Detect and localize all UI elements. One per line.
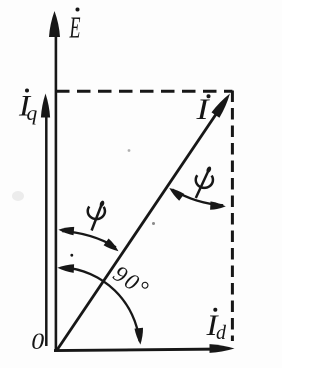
angle arc 90 degrees [64, 267, 140, 341]
label psi left [88, 205, 105, 231]
svg-text:0: 0 [31, 329, 44, 354]
dot accent of E label [76, 8, 80, 12]
svg-text:d: d [216, 322, 227, 344]
vector E axis shaft (q-axis) [55, 28, 58, 350]
dot accent of I label [207, 94, 211, 98]
arrowhead psi-left arc at axis [58, 227, 74, 235]
arrowhead psi-left arc at vector I [104, 239, 119, 252]
arrowhead 90-arc upper [57, 264, 74, 273]
dashed projection line vertical [231, 91, 234, 342]
dashed projection line horizontal [56, 90, 232, 93]
angle arc psi right [172, 190, 223, 206]
arrowhead of E axis [49, 11, 60, 37]
dot accent of Id label [213, 308, 217, 312]
vector Id axis shaft (d-axis) [54, 349, 226, 351]
faint smudge left edge [12, 191, 24, 201]
faint speck below right psi arc [152, 222, 155, 225]
arrowhead psi-right arc at dashed line [210, 201, 226, 209]
arrowhead of Iq vector [41, 94, 50, 118]
arrowhead of Id axis [210, 344, 235, 353]
dot accent of Iq label [25, 89, 29, 93]
label psi right [196, 171, 213, 199]
arrowhead psi-right arc at vector I [169, 188, 184, 201]
svg-text:q: q [27, 101, 38, 125]
ink speck near axis [70, 254, 73, 257]
arrowhead 90-arc lower [135, 328, 144, 345]
vector I shaft [57, 108, 220, 350]
svg-text:E: E [69, 10, 81, 45]
svg-text:90°: 90° [109, 261, 155, 303]
angle arc psi left [62, 231, 116, 247]
arrowhead of I vector [212, 94, 231, 118]
faint speck middle [128, 149, 131, 152]
vector Iq shaft [45, 108, 48, 346]
